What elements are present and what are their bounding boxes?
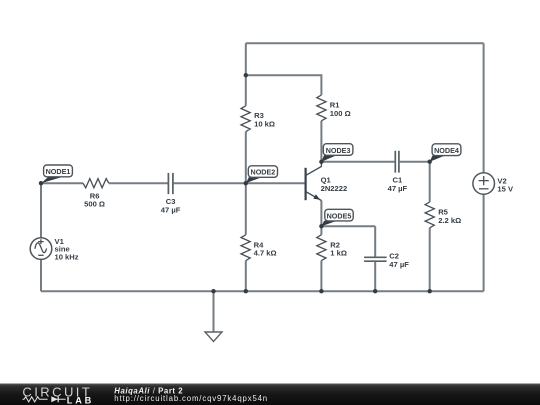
node NODE1 flag xyxy=(41,165,72,183)
wire R5 top lead xyxy=(429,162,431,202)
source V2 xyxy=(473,173,514,195)
resistor R4 xyxy=(241,235,250,261)
junction R4 / bottom rail xyxy=(244,289,248,293)
node NODE5 junction dot xyxy=(319,224,323,228)
svg-text:NODE5: NODE5 xyxy=(327,211,352,220)
capacitor C2 xyxy=(364,257,387,261)
node NODE4 junction dot xyxy=(428,160,432,164)
wire C2 bottom lead xyxy=(374,262,376,291)
wire C1 to node4 xyxy=(400,161,430,163)
capacitor C3 xyxy=(168,173,173,194)
node NODE2 flag xyxy=(246,166,278,183)
wire R1 bottom to collector node xyxy=(320,121,322,162)
junction supply rail / R3 xyxy=(244,73,248,77)
resistor R5 xyxy=(425,202,434,228)
wire ground lead xyxy=(213,291,215,332)
wire R5 bottom lead xyxy=(429,228,431,291)
junction R2 / bottom rail xyxy=(319,289,323,293)
junction C2 / bottom rail xyxy=(373,289,377,293)
wire top rail xyxy=(246,42,484,44)
wire emitter vertical xyxy=(320,201,322,227)
node NODE5 flag xyxy=(321,209,353,226)
wire C2 top lead xyxy=(374,226,376,256)
node NODE4 flag xyxy=(430,144,461,162)
wire R6 to C3 xyxy=(109,182,168,184)
wire R3 bottom to R4 top xyxy=(245,132,247,235)
junction R5 / bottom rail xyxy=(428,289,432,293)
wire C3 to base xyxy=(174,182,305,184)
source V1 xyxy=(30,237,79,262)
svg-text:LAB: LAB xyxy=(67,395,94,405)
node NODE3 flag xyxy=(321,144,353,162)
svg-text:2.2 kΩ: 2.2 kΩ xyxy=(438,216,461,225)
wire node1 to R6 xyxy=(41,182,83,184)
svg-text:15 V: 15 V xyxy=(497,185,514,194)
wire right side top (to V2) xyxy=(483,43,485,173)
wire R3 top lead xyxy=(245,43,247,106)
wire R4 bottom lead xyxy=(245,261,247,292)
svg-text:100 Ω: 100 Ω xyxy=(330,109,351,118)
logo squiggle xyxy=(23,397,66,402)
svg-text:2N2222: 2N2222 xyxy=(321,184,348,193)
svg-text:47 µF: 47 µF xyxy=(161,205,181,214)
svg-text:500 Ω: 500 Ω xyxy=(84,200,105,209)
svg-text:NODE1: NODE1 xyxy=(46,167,71,176)
wire R2 bottom lead xyxy=(320,261,322,292)
svg-text:1 kΩ: 1 kΩ xyxy=(330,249,347,258)
wire bottom rail xyxy=(41,290,484,292)
resistor R1 xyxy=(317,95,326,121)
svg-text:NODE2: NODE2 xyxy=(251,168,276,177)
svg-text:4.7 kΩ: 4.7 kΩ xyxy=(254,249,277,258)
resistor R3 xyxy=(241,106,250,132)
wire V1 top lead xyxy=(40,183,42,238)
svg-text:47 µF: 47 µF xyxy=(388,184,408,193)
wire R1 branch xyxy=(246,75,322,95)
wire emitter rail to C2 xyxy=(321,225,375,227)
node NODE1 junction dot xyxy=(39,181,43,185)
svg-text:47 µF: 47 µF xyxy=(389,260,409,269)
resistor R2 xyxy=(317,235,326,261)
node NODE2 junction dot xyxy=(244,181,248,185)
svg-text:10 kHz: 10 kHz xyxy=(55,252,79,261)
svg-text:NODE4: NODE4 xyxy=(434,146,459,155)
wire right side bottom (from V2) xyxy=(483,194,485,291)
resistor R6 xyxy=(83,179,109,188)
svg-text:10 kΩ: 10 kΩ xyxy=(254,120,275,129)
wire V1 bottom lead xyxy=(40,259,42,291)
wire node3 to C1 xyxy=(321,161,394,163)
node NODE3 junction dot xyxy=(319,160,323,164)
junction ground tap xyxy=(211,289,215,293)
transistor Q1 xyxy=(306,162,348,201)
ground xyxy=(205,332,222,342)
svg-text:http://circuitlab.com/cqv97k4q: http://circuitlab.com/cqv97k4qpx54n xyxy=(114,394,268,403)
wire R2 top lead xyxy=(320,226,322,235)
svg-text:NODE3: NODE3 xyxy=(326,146,351,155)
capacitor C1 xyxy=(395,151,399,173)
